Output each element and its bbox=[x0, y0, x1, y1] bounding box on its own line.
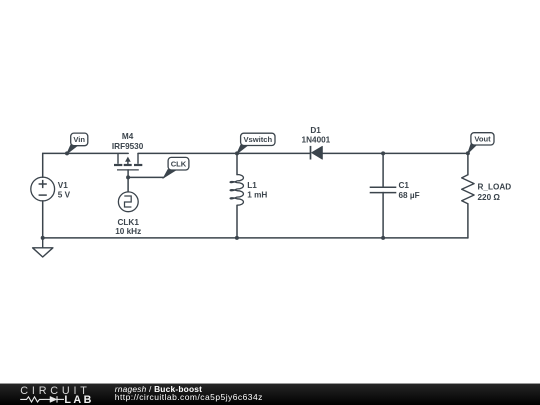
wire top rail middle segment bbox=[138, 152, 310, 154]
node flag Vin bbox=[67, 133, 88, 154]
node Vswitch junction bbox=[235, 151, 239, 155]
node C1 top junction bbox=[381, 151, 385, 155]
svg-text:http://circuitlab.com/ca5p5jy6: http://circuitlab.com/ca5p5jy6c634z bbox=[115, 392, 263, 402]
wire top rail left segment bbox=[43, 152, 129, 154]
svg-text:1N4001: 1N4001 bbox=[302, 136, 331, 145]
node flag CLK bbox=[164, 157, 189, 177]
wire left branch above V1 bbox=[42, 153, 44, 177]
transistor M4 (PMOS) bbox=[114, 153, 142, 170]
node L1 bottom junction bbox=[235, 236, 239, 240]
svg-text:V1: V1 bbox=[58, 181, 68, 190]
svg-text:R_LOAD: R_LOAD bbox=[478, 182, 512, 191]
svg-text:1 mH: 1 mH bbox=[247, 191, 267, 200]
CircuitLab logo squiggle (resistor + diode) bbox=[20, 396, 64, 402]
diode D1 bbox=[311, 146, 323, 160]
voltage source V1 bbox=[31, 177, 55, 201]
svg-text:D1: D1 bbox=[310, 126, 321, 135]
inductor L1 bbox=[230, 175, 243, 206]
svg-text:IRF9530: IRF9530 bbox=[112, 142, 144, 151]
wire right branch below R_LOAD bbox=[467, 204, 469, 238]
svg-text:Vout: Vout bbox=[474, 135, 491, 144]
svg-text:M4: M4 bbox=[122, 132, 134, 141]
svg-text:68 µF: 68 µF bbox=[399, 191, 420, 200]
wire bottom rail bbox=[43, 237, 468, 239]
svg-text:Vin: Vin bbox=[73, 135, 85, 144]
wire Vswitch drop to L1 bbox=[236, 153, 238, 174]
wire C1 top bbox=[382, 153, 384, 187]
svg-text:CLK1: CLK1 bbox=[118, 218, 140, 227]
node flag Vout bbox=[468, 133, 494, 154]
svg-text:10 kHz: 10 kHz bbox=[115, 227, 141, 236]
wire left branch below V1 bbox=[42, 201, 44, 238]
node gate/CLK junction bbox=[126, 175, 130, 179]
wire gate node to CLK flag bbox=[128, 176, 164, 178]
wire L1 bottom bbox=[236, 205, 238, 238]
wire C1 bottom bbox=[382, 193, 384, 238]
svg-text:L1: L1 bbox=[247, 181, 257, 190]
svg-text:C1: C1 bbox=[399, 181, 410, 190]
svg-text:5 V: 5 V bbox=[58, 191, 71, 200]
node C1 bottom junction bbox=[381, 236, 385, 240]
ground bbox=[33, 238, 53, 257]
wire M4 gate to CLK1 bbox=[127, 170, 129, 192]
wire right branch above R_LOAD bbox=[467, 153, 469, 174]
square wave source CLK1 bbox=[118, 192, 138, 212]
node V1 ground junction bbox=[41, 236, 45, 240]
wire top rail right segment bbox=[322, 152, 468, 154]
node Vin junction bbox=[65, 151, 69, 155]
svg-text:LAB: LAB bbox=[64, 394, 93, 405]
svg-text:CLK: CLK bbox=[171, 160, 187, 169]
resistor R_LOAD bbox=[462, 175, 474, 204]
node flag Vswitch bbox=[237, 133, 275, 153]
svg-text:220 Ω: 220 Ω bbox=[478, 193, 501, 202]
capacitor C1 bbox=[370, 187, 397, 192]
node Vout junction bbox=[466, 151, 470, 155]
svg-text:Vswitch: Vswitch bbox=[243, 135, 272, 144]
junction node dots bbox=[41, 151, 470, 240]
